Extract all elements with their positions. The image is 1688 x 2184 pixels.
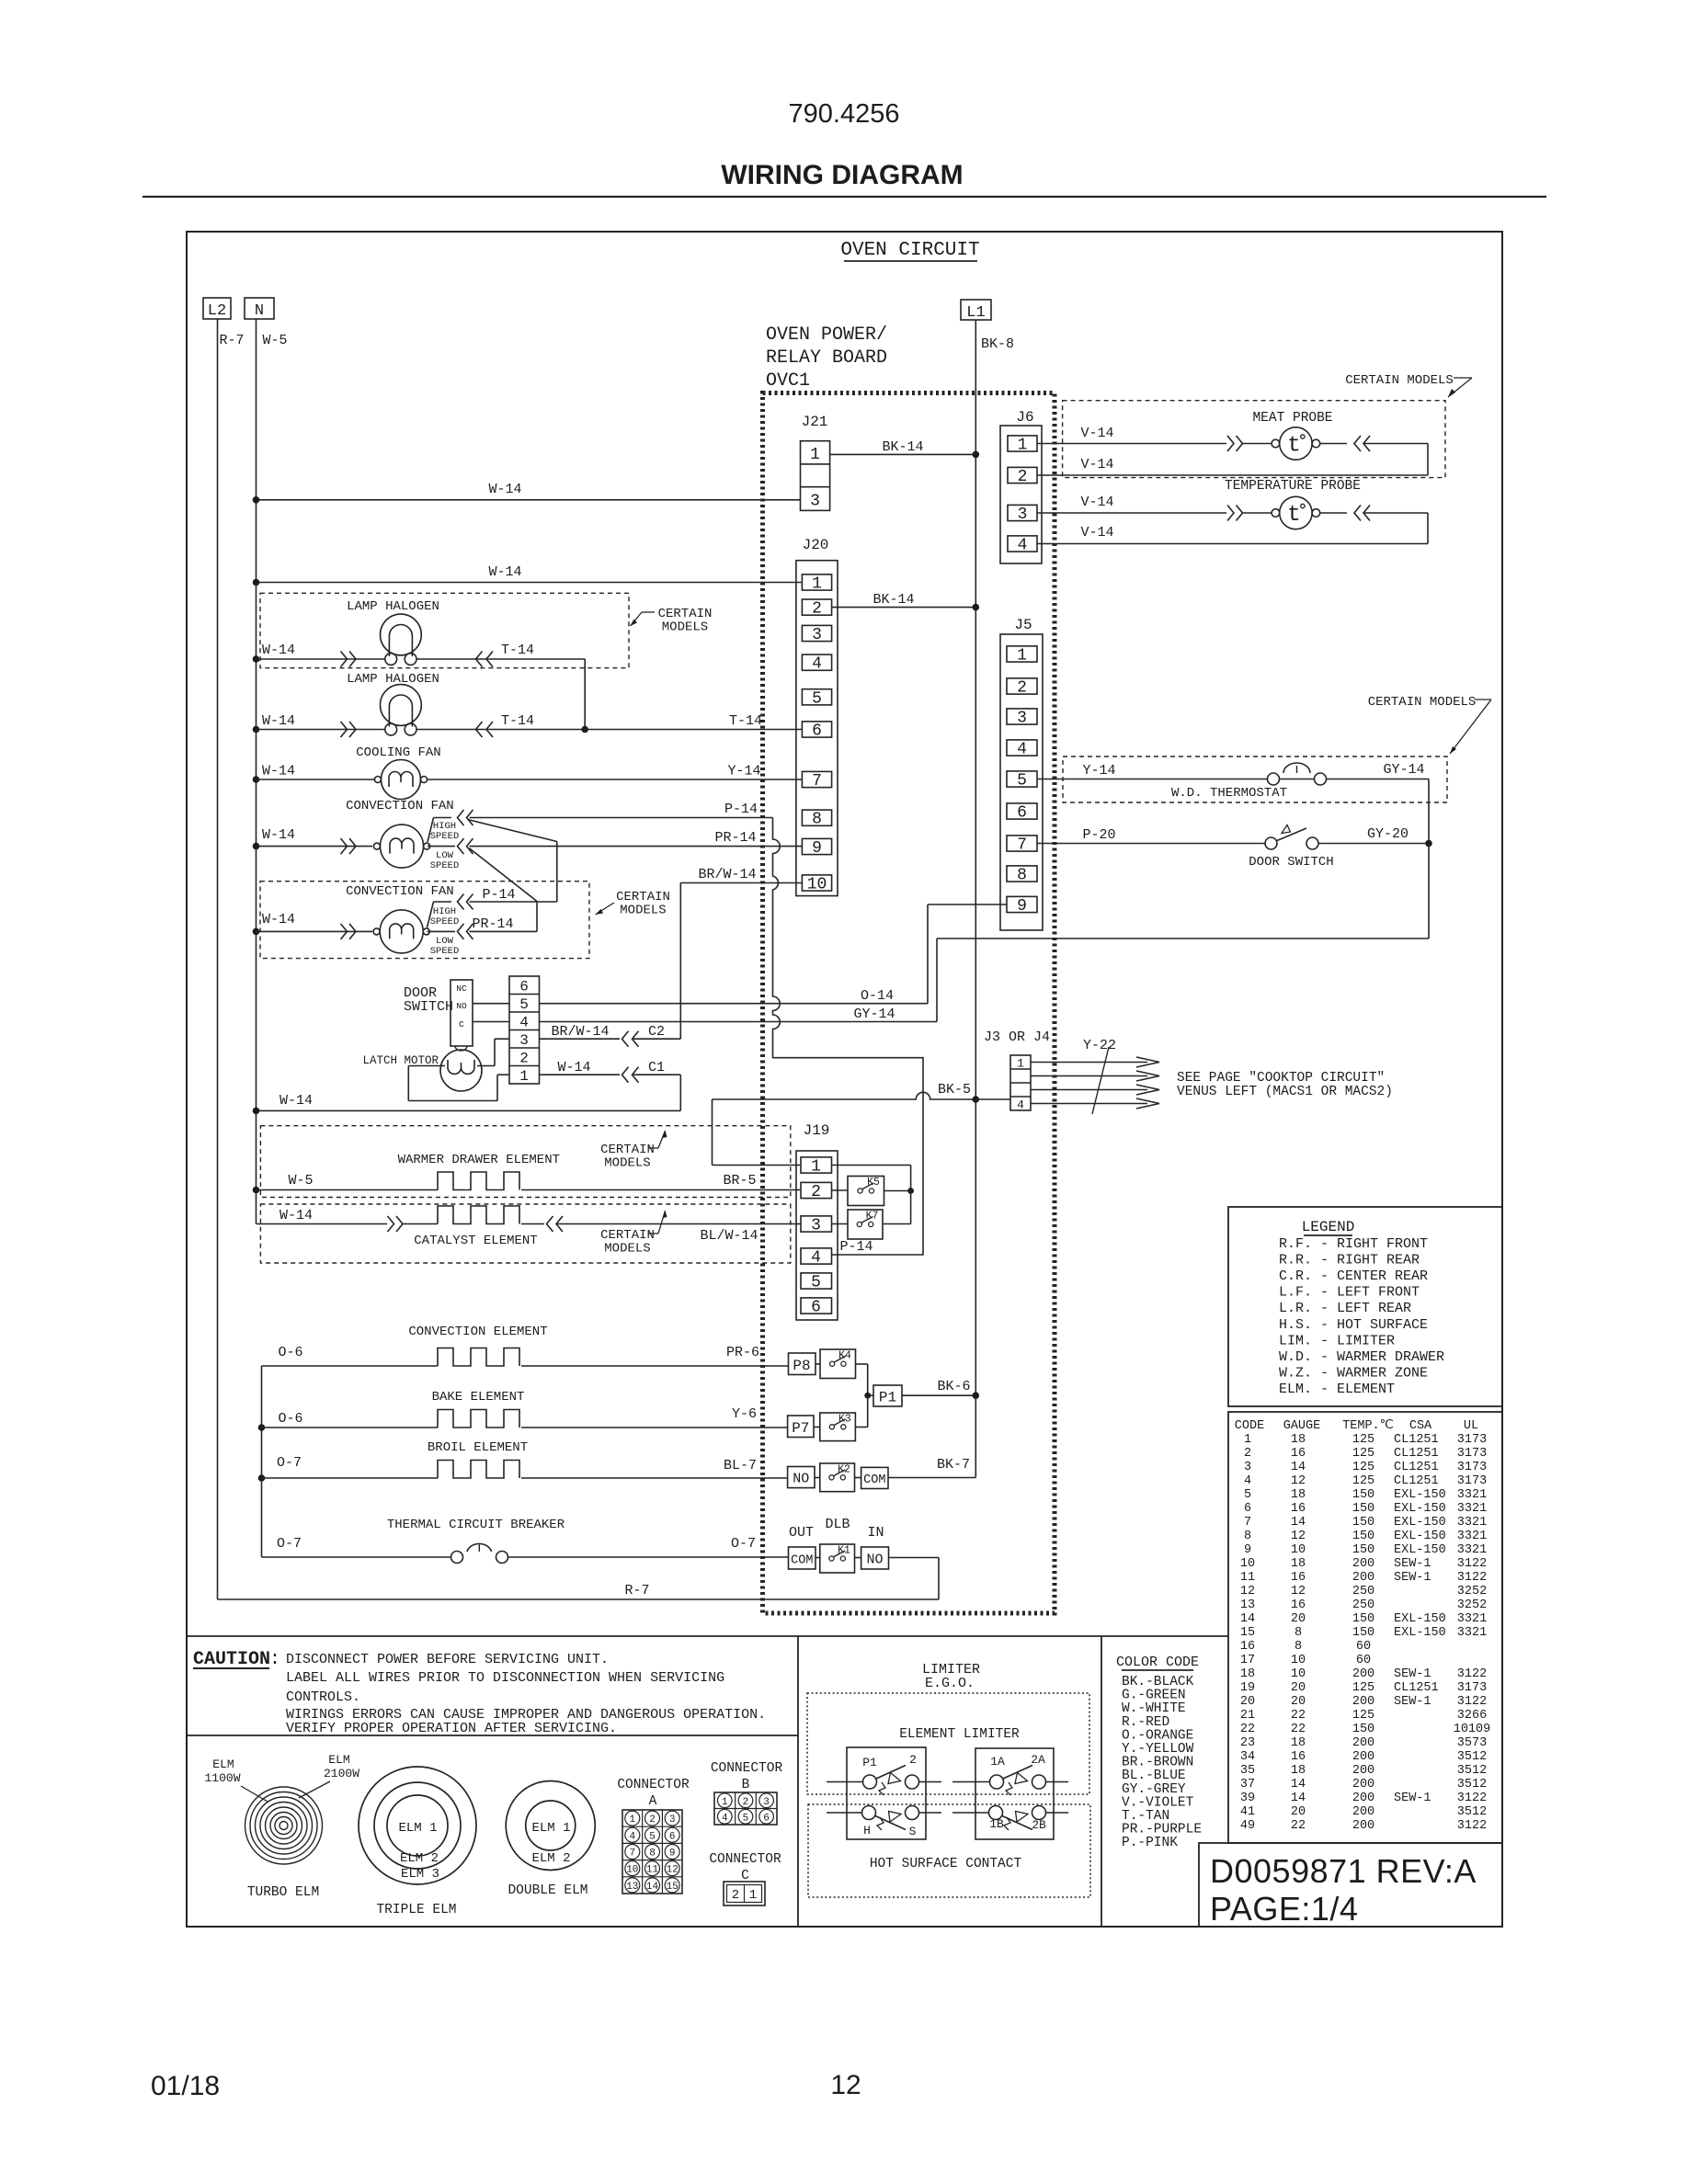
wire K5 output [884, 1188, 914, 1194]
catalyst element winding [438, 1206, 519, 1224]
svg-text:6: 6 [519, 979, 529, 995]
svg-text:V-14: V-14 [1080, 426, 1113, 441]
svg-text:BL-7: BL-7 [724, 1458, 757, 1473]
lamp halogen 1 [381, 614, 422, 665]
element limiter dotted box [807, 1693, 1089, 1794]
svg-text:4: 4 [812, 655, 822, 674]
svg-text:200: 200 [1352, 1778, 1374, 1792]
svg-text:2: 2 [1017, 679, 1027, 698]
wire from temp probe [1320, 512, 1347, 514]
svg-text:4: 4 [1018, 537, 1028, 555]
svg-text:COM: COM [791, 1554, 813, 1568]
wire P7 to K3 [814, 1427, 820, 1428]
turbo element spiral [245, 1787, 323, 1864]
wire P8 to K4 [815, 1363, 820, 1365]
svg-text:150: 150 [1352, 1626, 1374, 1640]
title 790.4256 [789, 99, 900, 129]
wire catalyst to J19 pin3 [521, 1223, 801, 1225]
svg-text:125: 125 [1352, 1447, 1374, 1461]
svg-text:MEAT PROBE: MEAT PROBE [1252, 411, 1332, 426]
svg-text:150: 150 [1352, 1723, 1374, 1736]
svg-text:GY.-GREY: GY.-GREY [1122, 1782, 1186, 1797]
svg-text:3512: 3512 [1457, 1764, 1487, 1778]
terminal L1 [961, 300, 991, 322]
wire BK-5 with hop to L1 and J3 [713, 1092, 1011, 1102]
label W-5 warmer [288, 1173, 313, 1189]
svg-text:125: 125 [1352, 1709, 1374, 1723]
svg-text:6: 6 [669, 1831, 676, 1842]
wire J5 pin5 to WD thermostat [1037, 779, 1268, 780]
svg-text:10: 10 [807, 876, 827, 894]
limiter switch contacts P1-2 [827, 1766, 941, 1796]
label BROIL ELEMENT [428, 1440, 528, 1455]
svg-text:5: 5 [1244, 1488, 1251, 1502]
svg-text:6: 6 [812, 722, 822, 741]
svg-text:2: 2 [743, 1797, 749, 1808]
svg-text:CONVECTION FAN: CONVECTION FAN [346, 884, 454, 899]
svg-text:CERTAIN MODELS: CERTAIN MODELS [1345, 373, 1454, 388]
plug chevrons convection fan 1 [341, 838, 357, 854]
svg-text:18: 18 [1240, 1667, 1255, 1681]
svg-text:20: 20 [1291, 1612, 1306, 1626]
svg-text:LAMP HALOGEN: LAMP HALOGEN [347, 672, 439, 687]
svg-text:125: 125 [1352, 1433, 1374, 1447]
wire J6 pin1 to meat probe [1037, 443, 1226, 445]
terminal NO broil [788, 1467, 815, 1488]
svg-text:12: 12 [1291, 1474, 1306, 1488]
svg-text:3122: 3122 [1457, 1695, 1487, 1709]
receptacle chevrons lamp2 [476, 722, 494, 737]
svg-text:10: 10 [626, 1865, 638, 1876]
connector J6 [1000, 409, 1042, 563]
svg-text:J21: J21 [802, 414, 828, 430]
svg-text:ELM: ELM [212, 1757, 234, 1771]
svg-text:K5: K5 [867, 1177, 880, 1189]
wire W-14 to J20 pin1 [253, 579, 803, 586]
labels ELM 1 2 double [531, 1821, 570, 1866]
wire K3 output to P1 node [855, 1395, 867, 1427]
svg-text:3512: 3512 [1457, 1778, 1487, 1792]
svg-text:15: 15 [1240, 1626, 1255, 1640]
svg-text:PR-14: PR-14 [472, 916, 513, 932]
svg-text:SPEED: SPEED [430, 860, 460, 871]
svg-text:SPEED: SPEED [430, 831, 460, 842]
label P-20 [1082, 827, 1115, 843]
svg-text:10: 10 [1291, 1543, 1306, 1557]
wire O-7 broil element row [258, 1474, 788, 1482]
svg-text:ELM. - ELEMENT: ELM. - ELEMENT [1279, 1382, 1395, 1397]
wire temp probe return loop [1037, 513, 1428, 544]
svg-text:200: 200 [1352, 1750, 1374, 1764]
svg-text:W.Z. - WARMER ZONE: W.Z. - WARMER ZONE [1279, 1365, 1428, 1381]
svg-text:14: 14 [1240, 1612, 1255, 1626]
svg-text:CONNECTOR: CONNECTOR [709, 1852, 781, 1867]
label BR/W-14 at J20 pin10 [698, 867, 756, 882]
label W-14 convection fan 2 [262, 912, 295, 927]
svg-text:T.-TAN: T.-TAN [1122, 1809, 1169, 1824]
svg-text:1: 1 [1017, 1057, 1024, 1071]
svg-text:V-14: V-14 [1080, 495, 1113, 510]
wire PR-14 fan1 low speed to J20 pin9 [469, 846, 802, 847]
wire J19 pin3 to K7 [832, 1223, 849, 1225]
color code list [1116, 1655, 1202, 1850]
wire W-14 to J21 pin3 [253, 496, 801, 504]
svg-text:V.-VIOLET: V.-VIOLET [1122, 1795, 1194, 1810]
svg-text:BR.-BROWN: BR.-BROWN [1122, 1756, 1193, 1770]
label V-14 [1080, 426, 1113, 441]
receptacle chevrons lamp1 [476, 652, 494, 667]
hot surface dotted box [808, 1804, 1090, 1897]
svg-text:2: 2 [649, 1814, 656, 1826]
plug chevrons temp probe [1227, 506, 1243, 521]
svg-text:LIM. - LIMITER: LIM. - LIMITER [1279, 1333, 1395, 1348]
svg-text:7: 7 [1017, 836, 1027, 855]
svg-text:Y.-YELLOW: Y.-YELLOW [1122, 1742, 1194, 1757]
label DOOR SWITCH [404, 985, 453, 1015]
svg-text:W.-WHITE: W.-WHITE [1122, 1701, 1186, 1716]
label CONNECTOR C [709, 1852, 781, 1883]
svg-text:O.-ORANGE: O.-ORANGE [1122, 1728, 1193, 1743]
svg-text:W-5: W-5 [262, 333, 287, 348]
wire W-5 to warmer drawer element and J19 pin2 [253, 1187, 801, 1194]
wires J3 to cooktop with arrows [1031, 1057, 1159, 1109]
svg-text:2: 2 [812, 600, 822, 619]
wire lamp2 T-14 to J20 pin6 [416, 729, 802, 731]
svg-text:9: 9 [1244, 1543, 1251, 1557]
receptacle chevrons fan2 low speed [458, 924, 473, 939]
label V-14 [1080, 495, 1113, 510]
svg-text:PR-14: PR-14 [714, 830, 756, 846]
wire BR/W-14 riser to J20 pin10 [680, 883, 802, 1040]
wire C1 return to N line [253, 1075, 681, 1114]
label O-7 broil [277, 1455, 302, 1471]
svg-text:200: 200 [1352, 1571, 1374, 1585]
svg-text:3321: 3321 [1457, 1488, 1487, 1502]
svg-text:S: S [909, 1825, 917, 1838]
svg-text:3321: 3321 [1457, 1530, 1487, 1543]
plug chevrons catalyst [388, 1216, 404, 1232]
svg-text:CONVECTION FAN: CONVECTION FAN [346, 799, 454, 813]
connector A grid [622, 1810, 682, 1894]
wire T-14 riser [581, 659, 588, 733]
svg-text:14: 14 [1291, 1461, 1306, 1474]
label COOLING FAN [356, 745, 440, 760]
svg-text:ELM 2: ELM 2 [400, 1851, 439, 1866]
label W-14 cooling fan [262, 764, 295, 779]
label T-14 lamp2 [501, 713, 534, 729]
svg-text:41: 41 [1240, 1805, 1255, 1819]
label HOT SURFACE CONTACT [870, 1857, 1022, 1871]
svg-text:8: 8 [1295, 1626, 1302, 1640]
svg-text:15: 15 [667, 1882, 679, 1893]
labels ELM 1 2 3 triple [398, 1821, 439, 1882]
svg-text:CATALYST ELEMENT: CATALYST ELEMENT [414, 1234, 537, 1248]
svg-text:HOT SURFACE CONTACT: HOT SURFACE CONTACT [870, 1857, 1022, 1871]
svg-text:B: B [742, 1778, 750, 1792]
svg-text:3: 3 [1017, 710, 1027, 728]
svg-text:P8: P8 [793, 1358, 810, 1374]
svg-text:BK-14: BK-14 [873, 592, 914, 608]
svg-text:BAKE ELEMENT: BAKE ELEMENT [432, 1390, 525, 1405]
svg-text:J5: J5 [1014, 617, 1032, 633]
limiter switch contacts 1A-2A [952, 1766, 1068, 1796]
wire J19 pin2 to K5 [832, 1189, 849, 1191]
label LOW SPEED fan2 [430, 936, 460, 957]
svg-text:1A: 1A [990, 1755, 1005, 1769]
wire door switch NO to connector cell5 [473, 1003, 509, 1005]
label MEAT PROBE [1252, 411, 1332, 426]
svg-text:16: 16 [1291, 1571, 1306, 1585]
label ELM 2100W [324, 1753, 359, 1780]
svg-text:GY-14: GY-14 [853, 1007, 895, 1022]
svg-text:E.G.O.: E.G.O. [925, 1676, 975, 1691]
wire J19 pin1 riser to BK-5 [713, 1099, 802, 1166]
wire P-14 fan1 high speed to OVC1 [469, 817, 772, 819]
receptacle chevrons catalyst [547, 1216, 564, 1232]
svg-text:3321: 3321 [1457, 1502, 1487, 1516]
wire GY-20 to junction [1318, 840, 1432, 847]
svg-text:DLB: DLB [825, 1517, 850, 1532]
svg-text:V-14: V-14 [1080, 457, 1113, 472]
svg-text:12: 12 [1291, 1585, 1306, 1598]
wire fan2 low speed [428, 930, 456, 932]
svg-text:10: 10 [1291, 1667, 1306, 1681]
svg-text:17: 17 [1240, 1654, 1255, 1667]
svg-text:SPEED: SPEED [430, 946, 460, 957]
svg-text:W-14: W-14 [488, 564, 521, 580]
svg-text:60: 60 [1356, 1640, 1371, 1654]
svg-text:G.-GREEN: G.-GREEN [1122, 1689, 1186, 1703]
label CONNECTOR B [711, 1761, 783, 1792]
svg-text:3573: 3573 [1457, 1736, 1487, 1750]
svg-text:W-14: W-14 [262, 643, 295, 658]
label P-14 fan2 [482, 887, 515, 903]
svg-text:SEE PAGE "COOKTOP CIRCUIT": SEE PAGE "COOKTOP CIRCUIT" [1177, 1071, 1385, 1086]
svg-text:CL1251: CL1251 [1394, 1433, 1439, 1447]
svg-text:L.F. - LEFT FRONT: L.F. - LEFT FRONT [1279, 1285, 1420, 1301]
label DLB [825, 1517, 850, 1532]
relay K7 [848, 1210, 883, 1239]
label LAMP HALOGEN lower [347, 672, 439, 687]
svg-text:3: 3 [1244, 1461, 1251, 1474]
label P-14 at J19 pin4 [839, 1239, 873, 1255]
svg-text:THERMAL CIRCUIT BREAKER: THERMAL CIRCUIT BREAKER [387, 1518, 565, 1532]
svg-text:WARMER DRAWER ELEMENT: WARMER DRAWER ELEMENT [398, 1153, 560, 1167]
label WARMER DRAWER ELEMENT [398, 1153, 560, 1167]
wire W-14 to lamp halogen 2 [253, 726, 385, 734]
svg-text:N: N [255, 302, 264, 320]
svg-text:OVEN POWER/: OVEN POWER/ [766, 324, 887, 346]
svg-text:W-14: W-14 [262, 764, 295, 779]
label BK-14 [882, 439, 923, 455]
svg-text:5: 5 [1017, 772, 1027, 791]
svg-text:OVC1: OVC1 [766, 370, 810, 392]
label O-7 thermal left [277, 1536, 302, 1552]
svg-text:60: 60 [1356, 1654, 1371, 1667]
svg-text:14: 14 [646, 1882, 659, 1893]
svg-text:J19: J19 [804, 1122, 830, 1139]
label O-6 convection [278, 1345, 302, 1360]
svg-text:DOUBLE ELM: DOUBLE ELM [508, 1883, 587, 1898]
svg-text:18: 18 [1291, 1764, 1306, 1778]
svg-text:A: A [649, 1794, 657, 1809]
connector J20 [796, 537, 838, 896]
wire W-14 C1 from cell1 [540, 1074, 681, 1075]
svg-text:250: 250 [1352, 1598, 1374, 1612]
svg-text:3321: 3321 [1457, 1543, 1487, 1557]
wire O-6 bake element row [258, 1424, 788, 1431]
limiter switch box P1/2/H/S [847, 1747, 926, 1839]
latch motor [440, 1050, 482, 1091]
svg-text:D0059871 REV:A: D0059871 REV:A [1210, 1852, 1477, 1890]
door switch contact [1265, 825, 1318, 850]
svg-text:R.-RED: R.-RED [1122, 1715, 1169, 1730]
meat probe sensor [1272, 427, 1320, 460]
svg-text:MODELS: MODELS [604, 1156, 650, 1171]
label BK-6 [937, 1379, 970, 1394]
svg-text:10: 10 [1240, 1557, 1255, 1571]
convection fan 1 motor [373, 825, 429, 868]
label CERTAIN MODELS thermostat with leader [1368, 695, 1491, 754]
svg-text:6: 6 [763, 1813, 770, 1824]
svg-text::: : [269, 1649, 280, 1670]
svg-text:1: 1 [811, 1158, 821, 1177]
svg-text:1: 1 [812, 575, 822, 594]
wire fan2 high speed tap [428, 902, 452, 927]
svg-text:SPEED: SPEED [430, 916, 460, 927]
svg-text:P-14: P-14 [482, 887, 515, 903]
svg-text:22: 22 [1291, 1709, 1306, 1723]
label O-14 [861, 988, 894, 1004]
wire W-14 to cooling fan [253, 776, 375, 783]
svg-text:150: 150 [1352, 1502, 1374, 1516]
svg-text:ELEMENT LIMITER: ELEMENT LIMITER [899, 1727, 1020, 1742]
svg-text:20: 20 [1291, 1805, 1306, 1819]
label LATCH MOTOR [362, 1054, 439, 1067]
svg-text:SEW-1: SEW-1 [1394, 1557, 1431, 1571]
svg-text:L1: L1 [966, 304, 985, 322]
label BR/W-14 C2 row [551, 1024, 609, 1040]
svg-text:18: 18 [1291, 1488, 1306, 1502]
wire O-7 thermal breaker row [262, 1556, 789, 1558]
label CONNECTOR A [617, 1778, 690, 1809]
svg-text:t: t [1287, 434, 1300, 459]
label BL/W-14 [700, 1228, 758, 1244]
label CERTAIN MODELS fan2 with leader [596, 890, 670, 918]
svg-text:150: 150 [1352, 1488, 1374, 1502]
wire W-14 to convection fan 1 [253, 843, 372, 850]
svg-text:125: 125 [1352, 1681, 1374, 1695]
label Y-6 [732, 1406, 757, 1422]
certain models dashed box warmer drawer [260, 1126, 790, 1198]
label Y-14 thermostat [1082, 763, 1115, 779]
svg-text:EXL-150: EXL-150 [1394, 1530, 1446, 1543]
svg-text:4: 4 [629, 1831, 635, 1842]
svg-text:5: 5 [519, 996, 529, 1013]
wire cooling fan Y-14 to J20 pin7 [428, 779, 802, 780]
svg-text:EXL-150: EXL-150 [1394, 1502, 1446, 1516]
label CATALYST ELEMENT [414, 1234, 537, 1248]
wire fan1 high speed tap [428, 818, 451, 843]
certain models dashed box catalyst [260, 1204, 790, 1263]
svg-text:14: 14 [1291, 1792, 1306, 1805]
label TURBO ELM [247, 1885, 319, 1900]
convection fan 2 motor [373, 910, 429, 953]
footer page number 12 [830, 2070, 861, 2100]
svg-text:H: H [863, 1824, 871, 1837]
svg-text:SEW-1: SEW-1 [1394, 1792, 1431, 1805]
svg-text:EXL-150: EXL-150 [1394, 1543, 1446, 1557]
svg-text:RELAY BOARD: RELAY BOARD [766, 347, 887, 369]
svg-text:SWITCH: SWITCH [404, 999, 453, 1015]
title WIRING DIAGRAM [721, 160, 963, 190]
svg-text:EXL-150: EXL-150 [1394, 1488, 1446, 1502]
label TEMPERATURE PROBE [1225, 479, 1361, 494]
relay K3 [820, 1413, 856, 1441]
wire BK-6 P1 to L1 [902, 1392, 979, 1399]
svg-text:Y-14: Y-14 [1082, 763, 1115, 779]
svg-text:2100W: 2100W [324, 1767, 359, 1780]
legend box [1228, 1207, 1502, 1406]
svg-text:9: 9 [669, 1848, 676, 1860]
certain models dashed box convection fan 2 [260, 882, 589, 959]
svg-text:35: 35 [1240, 1764, 1255, 1778]
label GY-14 thermostat [1383, 762, 1424, 778]
svg-text:10: 10 [1291, 1654, 1306, 1667]
svg-text:4: 4 [1017, 1098, 1024, 1112]
svg-text:22: 22 [1291, 1819, 1306, 1833]
svg-text:L2: L2 [208, 302, 226, 320]
svg-text:LABEL ALL WIRES PRIOR TO DISCO: LABEL ALL WIRES PRIOR TO DISCONNECTION W… [286, 1670, 724, 1686]
terminal P1 [868, 1385, 902, 1406]
label Y-14 [727, 764, 760, 779]
svg-text:CSA: CSA [1409, 1419, 1432, 1433]
wire from meat probe [1320, 443, 1347, 445]
header rule [143, 196, 1546, 198]
svg-text:O-14: O-14 [861, 988, 894, 1004]
svg-text:3321: 3321 [1457, 1626, 1487, 1640]
svg-text:W-14: W-14 [262, 713, 295, 729]
svg-text:200: 200 [1352, 1819, 1374, 1833]
svg-text:7: 7 [629, 1848, 635, 1860]
wire NO to K2 [815, 1477, 820, 1479]
label W-14 [488, 564, 521, 580]
svg-text:T-14: T-14 [501, 713, 534, 729]
label BK-5 [938, 1082, 971, 1098]
svg-text:CL1251: CL1251 [1394, 1461, 1439, 1474]
svg-text:3173: 3173 [1457, 1681, 1487, 1695]
svg-text:P-20: P-20 [1082, 827, 1115, 843]
svg-text:P.-PINK: P.-PINK [1122, 1836, 1178, 1850]
svg-text:10109: 10109 [1454, 1723, 1491, 1736]
svg-text:SEW-1: SEW-1 [1394, 1667, 1431, 1681]
svg-text:COOLING FAN: COOLING FAN [356, 745, 440, 760]
svg-text:8: 8 [1244, 1530, 1251, 1543]
wire BK-14 J21 pin1 to L1 [830, 451, 980, 459]
svg-text:3252: 3252 [1457, 1585, 1487, 1598]
wire fan1 low speed [428, 846, 455, 847]
svg-text:6: 6 [1244, 1502, 1251, 1516]
leader lines turbo element labels [241, 1781, 330, 1802]
svg-text:O-7: O-7 [277, 1536, 302, 1552]
svg-text:CL1251: CL1251 [1394, 1681, 1439, 1695]
label CERTAIN MODELS catalyst with leader [600, 1211, 667, 1257]
svg-text:3512: 3512 [1457, 1750, 1487, 1764]
wire fan2 low speed PR-14 [469, 930, 537, 932]
terminal COM DLB [789, 1547, 816, 1569]
relay K1 DLB [820, 1544, 855, 1573]
warmer drawer element winding [438, 1172, 519, 1190]
